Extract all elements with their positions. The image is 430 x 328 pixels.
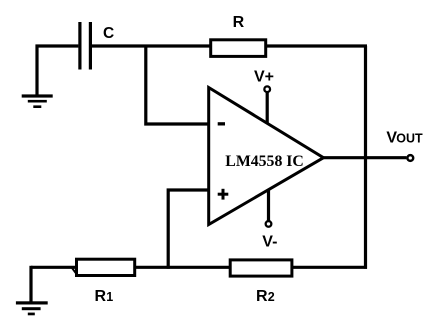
label R2 — [256, 288, 275, 305]
wire left vertical to ground — [35, 45, 38, 97]
capacitor C — [80, 22, 91, 70]
svg-text:C: C — [103, 25, 114, 42]
label VOUT — [386, 129, 423, 146]
wire top from capacitor to feedback corner — [92, 44, 367, 47]
ground G2 — [16, 301, 48, 315]
svg-text:V-: V- — [262, 233, 277, 250]
wire output — [321, 156, 406, 159]
wire top-left from ground stem to capacitor — [36, 44, 79, 47]
op-amp inverting pin mark - — [218, 122, 225, 125]
wire to inverting input (junction at node) — [146, 45, 209, 125]
svg-text:R: R — [233, 14, 245, 31]
wire non-inverting input — [168, 190, 209, 269]
V+ supply line — [266, 91, 269, 123]
ground G1 — [22, 94, 53, 108]
resistor R — [211, 40, 266, 57]
svg-text:V+: V+ — [254, 69, 274, 86]
op-amp U1 triangle — [209, 88, 324, 225]
Vout terminal circle — [407, 155, 413, 161]
svg-text:1: 1 — [106, 290, 113, 304]
wire nick at R1 left lead — [72, 267, 77, 274]
svg-text:R: R — [95, 288, 107, 305]
resistor R1 — [77, 259, 135, 275]
V- terminal circle — [266, 221, 272, 227]
wire bottom — [31, 266, 367, 269]
op-amp non-inverting pin mark + — [218, 189, 229, 200]
wire feedback vertical right — [364, 46, 367, 269]
wire bottom-left vertical to ground — [29, 266, 32, 303]
svg-text:LM4558 IC: LM4558 IC — [225, 153, 304, 170]
label R1 — [95, 288, 114, 305]
resistor R2 — [230, 260, 292, 276]
svg-text:R: R — [256, 288, 268, 305]
svg-text:OUT: OUT — [396, 131, 423, 145]
V+ terminal circle — [264, 86, 270, 92]
svg-text:2: 2 — [268, 290, 275, 304]
V- supply line — [267, 190, 270, 222]
